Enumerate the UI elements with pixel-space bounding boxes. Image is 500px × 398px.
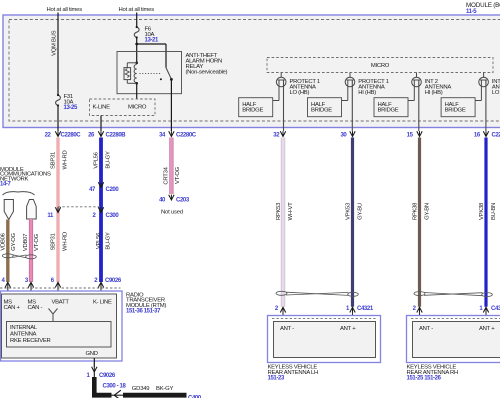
keyless antenna module LH box — [268, 316, 381, 363]
antenna A1 right leg to pin — [283, 80, 285, 131]
svg-text:ANT -: ANT - — [280, 326, 294, 332]
MICRO box — [267, 58, 493, 73]
svg-text:151-25 151-26: 151-25 151-26 — [407, 376, 442, 382]
antenna A4 right leg to pin — [485, 80, 487, 131]
svg-text:BU-GY: BU-GY — [105, 151, 111, 169]
svg-text:C300: C300 — [106, 213, 120, 219]
svg-text:BRIDGE: BRIDGE — [445, 108, 466, 114]
wire feed F6 — [136, 13, 138, 28]
pin 1 C4322 — [483, 307, 488, 312]
svg-text:11-5: 11-5 — [466, 9, 477, 15]
wire VPK53 GY-BU — [351, 138, 354, 307]
wire VPL56 BU-GY — [99, 138, 103, 283]
svg-text:ANT +: ANT + — [479, 326, 495, 332]
wire half bridge to antenna A2 — [342, 100, 348, 102]
svg-text:C2280B: C2280B — [106, 133, 127, 139]
pin 16 C2280A — [483, 131, 488, 136]
svg-text:K- LINE: K- LINE — [93, 300, 112, 306]
svg-text:HI (HB): HI (HB) — [425, 90, 443, 96]
svg-text:CRT34: CRT34 — [164, 166, 170, 184]
wire RPK38 GY-BN — [418, 138, 421, 307]
anti-theft alarm horn relay box — [117, 52, 182, 94]
svg-text:(Non-serviceable): (Non-serviceable) — [186, 70, 228, 76]
connector C203 pin 40 not used — [169, 195, 174, 200]
radio transceiver module box — [1, 291, 123, 361]
svg-text:WH-VT: WH-VT — [288, 202, 294, 221]
twisted pair loop rear LH — [276, 291, 287, 295]
BCM inner dashed border — [9, 20, 500, 122]
svg-text:C200: C200 — [106, 187, 120, 193]
svg-text:VPL56: VPL56 — [96, 232, 102, 249]
svg-text:14-7: 14-7 — [0, 182, 12, 188]
svg-text:C9026: C9026 — [99, 373, 116, 379]
svg-text:151-36 151-37: 151-36 151-37 — [126, 309, 161, 315]
pin 26 C2280B — [98, 131, 103, 136]
svg-text:C9026: C9026 — [105, 278, 122, 284]
svg-text:CAN -: CAN - — [28, 305, 43, 311]
svg-text:13-25: 13-25 — [64, 105, 78, 111]
antenna A4 left leg — [480, 80, 482, 101]
BCM module box (Body Control Module) — [3, 15, 500, 128]
svg-text:22: 22 — [45, 133, 52, 139]
antenna driver A2 circle — [349, 73, 351, 78]
half bridge box A2 — [308, 98, 342, 117]
pin 22 C2280C — [55, 131, 60, 136]
svg-text:K-LINE: K-LINE — [93, 105, 111, 111]
wire relay coil to micro — [136, 83, 138, 99]
svg-text:RPK38: RPK38 — [413, 202, 419, 220]
svg-text:BU-BN: BU-BN — [491, 203, 497, 220]
svg-text:VT-OG: VT-OG — [175, 166, 181, 184]
relay suppression resistor — [127, 62, 136, 64]
svg-text:Hot at all times: Hot at all times — [119, 7, 155, 13]
wire fuse F6 to relay — [136, 38, 138, 64]
wire relay switch to pin 34 — [170, 79, 172, 131]
fuse F6 10A — [134, 27, 139, 38]
wire VDB07 VT-OG — [29, 219, 33, 282]
antenna driver A3 circle — [416, 73, 418, 78]
connector C200 pin 47 — [98, 182, 103, 187]
svg-text:BRIDGE: BRIDGE — [311, 108, 332, 114]
antenna driver A1 circle — [280, 73, 282, 78]
pin 34 C2280C — [169, 131, 174, 136]
svg-text:SBP31: SBP31 — [51, 152, 57, 169]
antenna A2 right leg to pin — [351, 80, 353, 131]
svg-text:C2280C: C2280C — [61, 133, 82, 139]
svg-text:13-21: 13-21 — [145, 38, 159, 44]
svg-text:BRIDGE: BRIDGE — [378, 108, 399, 114]
svg-text:CAN +: CAN + — [4, 305, 21, 311]
antenna A2 left leg — [347, 80, 349, 101]
K-LINE MICRO box — [90, 99, 156, 116]
pin 1 C9026 ground — [92, 367, 97, 372]
twisted pair loop rear RH — [414, 292, 425, 296]
svg-text:16: 16 — [474, 133, 481, 139]
svg-text:BRIDGE: BRIDGE — [242, 108, 263, 114]
svg-text:WH-RD: WH-RD — [62, 151, 68, 170]
svg-text:C4322: C4322 — [491, 306, 500, 312]
svg-text:WH-RD: WH-RD — [62, 232, 68, 251]
pin 32 — [280, 131, 285, 136]
wire fuse F31 to pin 22 — [57, 106, 59, 132]
svg-text:151-23: 151-23 — [268, 376, 285, 382]
svg-text:C2280C: C2280C — [176, 133, 197, 139]
svg-text:GY-BN: GY-BN — [425, 203, 431, 220]
svg-text:RPK53: RPK53 — [276, 202, 282, 220]
pin 4 RTM — [5, 282, 10, 287]
ground wire GD349 BK-GY horizontal — [92, 393, 112, 398]
svg-text:VDB06: VDB06 — [0, 232, 6, 250]
brace — [3, 192, 35, 195]
ground wire GD349 BK-GY vertical — [93, 372, 95, 378]
svg-text:GY-BU: GY-BU — [358, 203, 364, 220]
svg-text:LO (HB): LO (HB) — [492, 90, 500, 96]
svg-text:VT-OG: VT-OG — [34, 233, 40, 251]
wire VPK38 BU-BN — [484, 138, 487, 307]
svg-text:ANT -: ANT - — [419, 326, 433, 332]
half bridge box A1 — [239, 98, 273, 117]
pin 30 — [350, 131, 355, 136]
svg-text:BK-GY: BK-GY — [156, 386, 174, 392]
connector C300 dashed link — [58, 206, 101, 208]
wire GND out — [93, 358, 95, 367]
svg-text:VPL56: VPL56 — [94, 151, 100, 168]
antenna A3 left leg — [413, 80, 415, 101]
relay actuation dotted link — [140, 73, 162, 75]
svg-text:VPK53: VPK53 — [346, 202, 352, 220]
svg-text:32: 32 — [273, 133, 280, 139]
keyless antenna module RH box — [407, 316, 500, 363]
half bridge box A3 — [374, 98, 408, 117]
wire half bridge to antenna A4 — [475, 100, 481, 102]
RTM internal antenna symbol — [49, 309, 58, 315]
svg-text:47: 47 — [89, 187, 96, 193]
svg-text:BU-GY: BU-GY — [106, 232, 112, 250]
svg-text:MICRO: MICRO — [128, 105, 147, 111]
svg-text:GND: GND — [86, 351, 98, 357]
connector C300 pin 2 — [98, 207, 103, 212]
wire K-LINE to pin 26 — [100, 116, 102, 132]
svg-text:VQM BUS: VQM BUS — [51, 30, 57, 56]
svg-text:Hot at all times: Hot at all times — [47, 7, 83, 13]
twisted pair loop — [2, 254, 13, 258]
in-line connector female — [27, 200, 37, 220]
svg-text:VDB07: VDB07 — [23, 234, 29, 251]
svg-text:MICRO: MICRO — [371, 63, 390, 69]
svg-text:C4321: C4321 — [357, 306, 374, 312]
fuse F31 10A — [56, 95, 61, 106]
svg-text:C2280A: C2280A — [492, 133, 500, 139]
wire half bridge to antenna A3 — [408, 100, 414, 102]
internal antenna rke receiver box — [7, 322, 112, 348]
svg-text:VBATT: VBATT — [52, 300, 70, 306]
svg-text:GY-OG: GY-OG — [11, 232, 17, 250]
wire branch to relay switch — [137, 43, 166, 45]
wire half bridge to antenna A1 — [273, 100, 279, 102]
svg-text:GD349: GD349 — [132, 386, 150, 392]
wire RPK53 WH-VT — [281, 138, 285, 307]
svg-text:40: 40 — [159, 198, 166, 204]
relay coil — [134, 65, 137, 83]
antenna driver A4 circle — [483, 73, 485, 78]
svg-text:Not used: Not used — [161, 209, 183, 215]
pin 2 C9026 RTM — [98, 282, 103, 287]
svg-text:SBP31: SBP31 — [51, 234, 57, 251]
svg-text:C203: C203 — [176, 198, 190, 204]
pin 2 rear LH — [280, 307, 285, 312]
svg-text:26: 26 — [88, 133, 95, 139]
antenna A3 right leg to pin — [418, 80, 420, 131]
wire SBP31 WH-RD — [56, 138, 59, 283]
svg-text:15: 15 — [407, 133, 414, 139]
svg-text:ANTENNA: ANTENNA — [10, 332, 37, 338]
svg-text:RKE RECEIVER: RKE RECEIVER — [10, 338, 51, 344]
svg-text:INTERNAL: INTERNAL — [10, 325, 38, 331]
pin 15 — [417, 131, 422, 136]
svg-text:C300 - 18: C300 - 18 — [103, 383, 127, 389]
svg-text:34: 34 — [159, 133, 166, 139]
wire VDB06 GY-OG — [6, 220, 9, 283]
pin 2 rear RH — [417, 307, 422, 312]
junction dot — [135, 43, 138, 46]
svg-text:ANT +: ANT + — [340, 326, 356, 332]
pin 3 RTM — [28, 282, 33, 287]
RTM connector dashed line — [0, 287, 121, 289]
connector C300 pin 11 — [55, 207, 60, 212]
svg-text:VPK38: VPK38 — [479, 202, 485, 220]
pin 1 C4321 — [350, 307, 355, 312]
antenna A1 left leg — [278, 80, 280, 101]
wire VQM BUS feed — [57, 13, 59, 96]
connector C300-18 on ground wire — [114, 390, 121, 398]
wire CRT34 VT-OG — [169, 138, 173, 195]
svg-text:HI (HB): HI (HB) — [358, 90, 376, 96]
pin 6 RTM — [55, 282, 60, 287]
half bridge box A4 — [441, 98, 475, 117]
relay switch — [166, 68, 171, 80]
svg-text:LO (HB): LO (HB) — [290, 90, 310, 96]
svg-text:30: 30 — [340, 133, 347, 139]
in-line connector male — [4, 200, 13, 220]
